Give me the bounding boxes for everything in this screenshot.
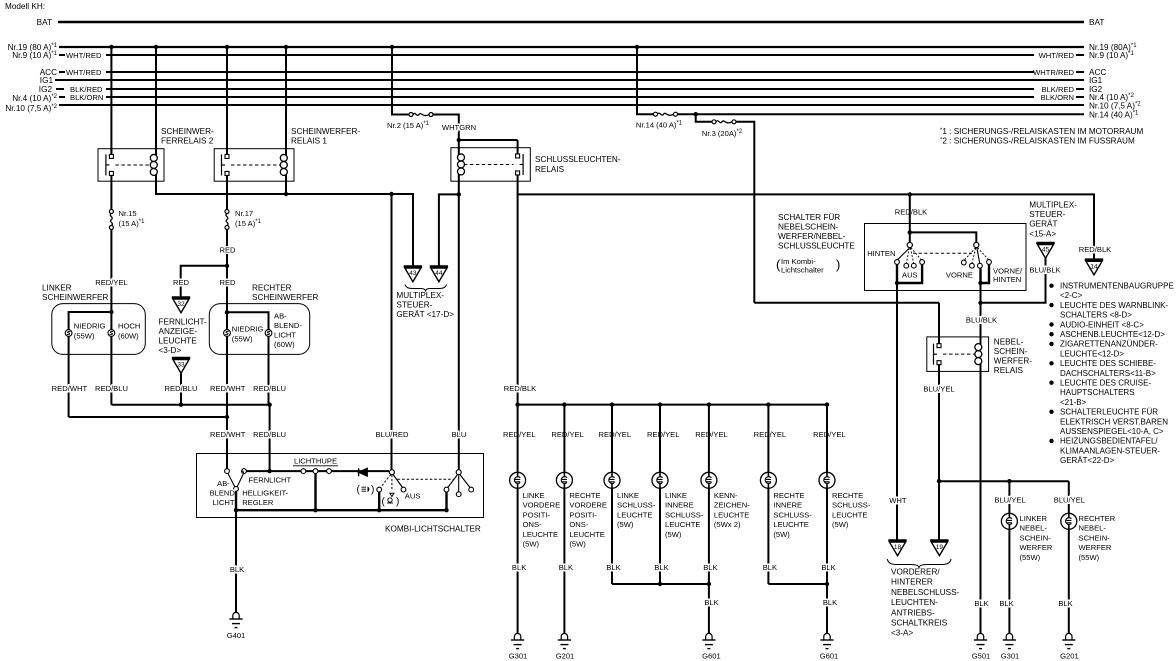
label Im Kombi-Lichtschalter	[776, 257, 840, 275]
ground G601 left	[702, 633, 721, 660]
svg-text:BLK: BLK	[606, 563, 620, 572]
svg-text:RECHTE: RECHTE	[773, 491, 804, 500]
lamp RECHTER NEBELSCHEINWERFER (55W)	[1058, 513, 1115, 634]
svg-text:SCHLUSS-: SCHLUSS-	[617, 501, 656, 510]
wire bus BAT	[37, 18, 1105, 27]
fuse Nr.3 (20A) branch	[694, 112, 755, 303]
wire BLK to G401	[230, 510, 244, 613]
bracket VORNE/HINTEN output	[978, 265, 989, 286]
svg-text:14: 14	[1090, 263, 1098, 270]
svg-text:INNERE: INNERE	[665, 501, 694, 510]
svg-text:KOMBI-LICHTSCHALTER: KOMBI-LICHTSCHALTER	[385, 525, 481, 534]
wire bus ACC WHT/RED	[40, 68, 1107, 77]
svg-text:STEUER-: STEUER-	[1029, 210, 1065, 219]
svg-text:BLK/ORN: BLK/ORN	[70, 93, 103, 102]
svg-text:RECHTER: RECHTER	[252, 284, 292, 293]
svg-text:RECHTE: RECHTE	[832, 491, 863, 500]
svg-text:STEUER-: STEUER-	[396, 301, 432, 310]
svg-text:<21-B>: <21-B>	[1060, 398, 1087, 407]
svg-text:BLU/YEL: BLU/YEL	[923, 385, 954, 394]
svg-text:VORDERE: VORDERE	[523, 501, 561, 510]
svg-text:*1 : SICHERUNGS-/RELAISKASTEN: *1 : SICHERUNGS-/RELAISKASTEN IM MOTORRA…	[940, 127, 1143, 136]
svg-text:HINTEN: HINTEN	[867, 249, 895, 258]
svg-text:WERFER: WERFER	[1020, 543, 1053, 552]
svg-text:G201: G201	[556, 652, 575, 661]
svg-text:HINTEN: HINTEN	[993, 275, 1021, 284]
svg-text:WHT: WHT	[889, 496, 907, 505]
svg-text:WHTGRN: WHTGRN	[442, 123, 476, 132]
svg-text:FERRELAIS 2: FERRELAIS 2	[161, 137, 214, 146]
svg-text:Nr.4 (10 A)*2: Nr.4 (10 A)*2	[12, 94, 57, 103]
svg-text:RELAIS: RELAIS	[994, 366, 1024, 375]
svg-text:ZEICHEN-: ZEICHEN-	[714, 501, 750, 510]
svg-text:(55W): (55W)	[1079, 553, 1100, 562]
wire bus Nr.10 (7,5A)	[5, 102, 1141, 114]
wire relay coil to ground BLK	[974, 371, 988, 634]
svg-text:BLK: BLK	[230, 565, 244, 574]
svg-text:Nr.14 (40 A)*1: Nr.14 (40 A)*1	[636, 121, 683, 130]
svg-text:LEUCHTE DES WARNBLINK-: LEUCHTE DES WARNBLINK-	[1060, 301, 1169, 310]
lamp LINKER NEBELSCHEINWERFER (55W)	[999, 513, 1053, 634]
svg-text:SCHLUSSLEUCHTEN-: SCHLUSSLEUCHTEN-	[535, 155, 621, 164]
wire drop to relay1 coil	[285, 47, 287, 152]
svg-text:Lichtschalter: Lichtschalter	[781, 266, 824, 275]
svg-text:44: 44	[435, 270, 443, 277]
svg-text:LEUCHTE: LEUCHTE	[832, 510, 867, 519]
fuse Nr.14 (40A) bus branch	[635, 45, 1139, 130]
switch rotary pivot 2	[398, 470, 474, 497]
svg-text:HAUPTSCHALTERS: HAUPTSCHALTERS	[1060, 388, 1135, 397]
svg-text:18: 18	[894, 544, 902, 551]
svg-text:LEUCHTE DES CRUISE-: LEUCHTE DES CRUISE-	[1060, 379, 1151, 388]
svg-text:RED/BLK: RED/BLK	[504, 384, 537, 393]
svg-text:INNERE: INNERE	[773, 501, 802, 510]
svg-text:AB-: AB-	[217, 479, 230, 488]
svg-text:REGLER: REGLER	[242, 498, 274, 507]
wire net schluss contact to fog switch and triangle 14 (RED/BLK)	[518, 181, 1094, 260]
connector triangle 45 with BLU/BLK tail	[981, 243, 1061, 303]
svg-text:NEBELSCHLUSS-: NEBELSCHLUSS-	[891, 588, 960, 597]
lamp RECHTE VORDERE POSITIONSLEUCHTE (5W)	[551, 405, 607, 634]
svg-text:BLU/YEL: BLU/YEL	[994, 496, 1025, 505]
svg-text:LEUCHTE: LEUCHTE	[523, 530, 558, 539]
svg-text:G301: G301	[1001, 652, 1020, 661]
svg-text:SCHEINWER-: SCHEINWER-	[161, 127, 214, 136]
ground G301 (position lamp)	[509, 633, 528, 660]
svg-text:FERNLICHT: FERNLICHT	[249, 476, 292, 485]
list of multiplex consumers	[1049, 282, 1173, 466]
svg-text:BLK/ORN: BLK/ORN	[1041, 93, 1074, 102]
svg-text:RED/BLU: RED/BLU	[95, 384, 128, 393]
svg-text:RED/YEL: RED/YEL	[599, 430, 632, 439]
svg-text:BLK: BLK	[654, 563, 668, 572]
svg-text:BLU/RED: BLU/RED	[376, 430, 409, 439]
svg-text:(55W): (55W)	[1020, 553, 1041, 562]
svg-text:RELAIS: RELAIS	[535, 165, 565, 174]
svg-text:BAT: BAT	[1089, 18, 1104, 27]
svg-text:INSTRUMENTENBAUGRUPPE: INSTRUMENTENBAUGRUPPE	[1060, 282, 1174, 291]
wire bus Nr.9 (10A) WHT/RED	[12, 51, 1134, 60]
svg-text:SCHEINWERFER-: SCHEINWERFER-	[291, 127, 360, 136]
svg-text:32: 32	[177, 301, 185, 308]
svg-text:BLEND-: BLEND-	[210, 489, 238, 498]
wire merge schlussleuchten right group BLK	[768, 582, 837, 634]
connector triangle 18	[888, 539, 906, 542]
svg-text:RED/BLK: RED/BLK	[1079, 245, 1112, 254]
svg-text:(15 A)*1: (15 A)*1	[235, 219, 262, 228]
svg-text:): )	[371, 485, 374, 496]
svg-text:LEUCHTE<12-D>: LEUCHTE<12-D>	[1060, 349, 1124, 358]
svg-text:Nr.14 (40 A)*1: Nr.14 (40 A)*1	[1089, 111, 1139, 120]
svg-text:BLK: BLK	[704, 598, 718, 607]
ground G201 (position lamp)	[556, 633, 575, 660]
svg-text:Nr.9 (10 A)*1: Nr.9 (10 A)*1	[12, 51, 57, 60]
connector triangle 32	[172, 296, 190, 299]
svg-text:HELLIGKEIT-: HELLIGKEIT-	[242, 489, 288, 498]
svg-text:AUS: AUS	[405, 492, 421, 501]
svg-text:(55W): (55W)	[74, 332, 95, 341]
svg-text:ZIGARETTENANZÜNDER-: ZIGARETTENANZÜNDER-	[1060, 340, 1158, 349]
svg-text:(5W): (5W)	[832, 520, 849, 529]
svg-text:BLK: BLK	[512, 563, 526, 572]
connector triangle 14	[1085, 258, 1103, 261]
wire bus IG1	[40, 76, 1103, 85]
svg-text:(55W): (55W)	[232, 335, 253, 344]
relay SCHEINWERFER-RELAIS 1	[214, 127, 360, 181]
switch LICHTHUPE contacts	[247, 457, 390, 474]
svg-text:SCHLUSS-: SCHLUSS-	[832, 501, 871, 510]
svg-text:43: 43	[409, 270, 417, 277]
wire kombi internal bus to ground	[234, 474, 449, 513]
connector triangle 44	[430, 265, 448, 268]
svg-text:BLU/BLK: BLU/BLK	[966, 316, 997, 325]
svg-text:<3-A>: <3-A>	[891, 629, 914, 638]
wire fog lamp distribution BLU/YEL	[937, 479, 1085, 541]
ground G301 fog	[1001, 633, 1020, 660]
svg-text:GERÄT<22-D>: GERÄT<22-D>	[1060, 456, 1115, 465]
wire Nr.3 feed to fog relay contact	[754, 303, 939, 342]
svg-text:WERFER-: WERFER-	[994, 357, 1032, 366]
lamp RECHTE INNERE SCHLUSSLEUCHTE (5W)	[754, 405, 813, 584]
svg-text:KLIMAANLAGEN-STEUER-: KLIMAANLAGEN-STEUER-	[1060, 446, 1160, 455]
svg-text:GERÄT <17-D>: GERÄT <17-D>	[396, 309, 454, 319]
svg-text:SCHLUSSLEUCHTE: SCHLUSSLEUCHTE	[778, 242, 855, 251]
brace under triangles 18/19	[887, 559, 951, 568]
svg-text:SCHLUSS-: SCHLUSS-	[773, 510, 812, 519]
icon headlight in parens	[357, 485, 375, 496]
svg-text:(5Wx 2): (5Wx 2)	[714, 520, 741, 529]
svg-text:RED/BLU: RED/BLU	[253, 430, 286, 439]
svg-text:RED/BLK: RED/BLK	[895, 208, 928, 217]
svg-text:33: 33	[177, 362, 185, 369]
svg-text:*2 : SICHERUNGS-/RELAISKASTEN: *2 : SICHERUNGS-/RELAISKASTEN IM FUSSRAU…	[940, 137, 1135, 146]
svg-text:LEUCHTE: LEUCHTE	[773, 520, 808, 529]
svg-text:BLK: BLK	[763, 563, 777, 572]
svg-text:BLK: BLK	[821, 563, 835, 572]
wire bus Nr.19 (80A)	[8, 43, 1138, 52]
svg-text:RED: RED	[219, 278, 236, 287]
lamp RECHTE SCHLUSSLEUCHTE (5W)	[813, 405, 871, 584]
svg-text:BLK: BLK	[1058, 599, 1072, 608]
svg-text:(5W): (5W)	[523, 540, 540, 549]
svg-text:RED/YEL: RED/YEL	[695, 430, 728, 439]
svg-text:Nr.10 (7,5 A)*2: Nr.10 (7,5 A)*2	[5, 104, 57, 113]
wire fog switch feed split	[908, 194, 977, 242]
svg-text:GERÄT: GERÄT	[1029, 219, 1057, 229]
svg-text:BLK: BLK	[999, 599, 1013, 608]
wire drop to relay1 contact	[226, 47, 228, 152]
lamp KENNZEICHENLEUCHTE (5W)	[695, 405, 750, 584]
ground G501	[972, 633, 991, 660]
svg-text:IG1: IG1	[40, 76, 54, 85]
lamp LINKE VORDERE POSITIONSLEUCHTE (5W)	[503, 405, 560, 634]
wire merge RED/WHT	[69, 415, 230, 419]
svg-text:(60W): (60W)	[118, 332, 139, 341]
fuse Nr.15 (15A)	[109, 181, 145, 305]
svg-text:ONS-: ONS-	[523, 520, 542, 529]
svg-text:RED/WHT: RED/WHT	[210, 430, 246, 439]
svg-text:19: 19	[936, 544, 944, 551]
svg-text:RED: RED	[173, 278, 190, 287]
svg-text:45: 45	[1042, 247, 1050, 254]
diode arrow on fernlicht wire	[359, 468, 368, 476]
svg-text:Nr.17: Nr.17	[235, 209, 253, 218]
svg-text:LEUCHTE: LEUCHTE	[665, 520, 700, 529]
svg-text:MULTIPLEX-: MULTIPLEX-	[396, 291, 444, 300]
svg-text:AUSSENSPIEGEL<10-A, C>: AUSSENSPIEGEL<10-A, C>	[1060, 427, 1164, 436]
svg-text:(5W): (5W)	[617, 520, 634, 529]
svg-text:RED/BLU: RED/BLU	[165, 384, 198, 393]
svg-text:SCHEIN-: SCHEIN-	[994, 347, 1028, 356]
wire drop to relay2 contact	[110, 47, 112, 152]
svg-text:SCHLUSS-: SCHLUSS-	[665, 510, 704, 519]
svg-text:Nr.3 (20A)*2: Nr.3 (20A)*2	[702, 129, 743, 138]
svg-text:WHT/RED: WHT/RED	[1039, 51, 1075, 60]
svg-text:(60W): (60W)	[274, 340, 295, 349]
wire merge schlussleuchten left group BLK	[612, 582, 719, 634]
svg-text:RED/YEL: RED/YEL	[503, 430, 536, 439]
svg-text:LINKE: LINKE	[665, 491, 687, 500]
brace + label MULTIPLEX-STEUER-GERAET 17-D	[396, 285, 454, 320]
svg-text:MULTIPLEX-: MULTIPLEX-	[1029, 201, 1077, 210]
svg-text:RED/WHT: RED/WHT	[52, 384, 88, 393]
svg-text:): )	[836, 257, 840, 272]
svg-text:SCHEINWERFER: SCHEINWERFER	[42, 293, 108, 302]
svg-text:G601: G601	[702, 652, 721, 661]
svg-text:VORDERE: VORDERE	[569, 501, 607, 510]
svg-text:WHTR/RED: WHTR/RED	[1033, 68, 1074, 77]
ground G401	[227, 612, 246, 640]
svg-text:RED/BLU: RED/BLU	[253, 384, 286, 393]
connector triangle 33 with RED/BLU tail	[172, 358, 190, 405]
svg-text:LICHTHUPE: LICHTHUPE	[294, 457, 337, 466]
svg-text:NEBELSCHEIN-: NEBELSCHEIN-	[778, 223, 839, 232]
svg-text:ANZEIGE-: ANZEIGE-	[159, 327, 198, 336]
svg-text:FERNLICHT-: FERNLICHT-	[159, 318, 207, 327]
relay SCHLUSSLEUCHTEN-RELAIS	[451, 138, 621, 181]
svg-text:): )	[396, 497, 399, 508]
svg-text:WERFER: WERFER	[1079, 543, 1112, 552]
svg-text:LEUCHTE DES SCHIEBE-: LEUCHTE DES SCHIEBE-	[1060, 359, 1156, 368]
wire WHT from AUS to triangle 18	[889, 283, 907, 541]
svg-text:RED/YEL: RED/YEL	[551, 430, 584, 439]
svg-text:G501: G501	[972, 652, 991, 661]
svg-text:HOCH: HOCH	[118, 322, 140, 331]
svg-text:Nr.2 (15 A)*1: Nr.2 (15 A)*1	[387, 121, 430, 130]
svg-text:KENN-: KENN-	[714, 491, 738, 500]
relay SCHEINWERFERRELAIS 2	[98, 127, 214, 181]
svg-text:LICHT: LICHT	[213, 498, 235, 507]
svg-text:NEBEL-: NEBEL-	[1079, 524, 1107, 533]
wire BLU/YEL from relay contact	[923, 371, 954, 481]
svg-text:Modell KH:: Modell KH:	[5, 2, 45, 11]
svg-text:NIEDRIG: NIEDRIG	[232, 325, 264, 334]
switch rotary fog front	[961, 242, 991, 268]
wire taillight distribution bus RED/BLK	[515, 402, 829, 406]
wire merge RED/BLU	[111, 403, 271, 472]
switch rotary pivot 1 with AUS	[377, 470, 406, 497]
svg-text:BLK: BLK	[974, 599, 988, 608]
switch rotary fog rear (AUS position)	[895, 242, 925, 268]
svg-text:LINKE: LINKE	[617, 491, 639, 500]
svg-text:SCHALTERS <8-D>: SCHALTERS <8-D>	[1060, 311, 1132, 320]
switch box KOMBI-LICHTSCHALTER	[197, 454, 484, 518]
wire RED branch to triangle 32	[173, 246, 236, 298]
svg-text:BLU: BLU	[452, 430, 467, 439]
headlamp LINKER SCHEINWERFER	[42, 284, 145, 418]
svg-text:POSITI-: POSITI-	[569, 510, 597, 519]
svg-text:LINKER: LINKER	[42, 284, 72, 293]
svg-text:BAT: BAT	[37, 18, 52, 27]
svg-text:LEUCHTEN-: LEUCHTEN-	[891, 598, 938, 607]
fuse Nr.2 (15A) branch with wire WHT/GRN	[387, 45, 476, 140]
svg-text:HEIZUNGSBEDIENTAFEL/: HEIZUNGSBEDIENTAFEL/	[1060, 437, 1158, 446]
svg-text:(5W): (5W)	[569, 540, 586, 549]
svg-text:LEUCHTE: LEUCHTE	[569, 530, 604, 539]
svg-text:RED/YEL: RED/YEL	[813, 430, 846, 439]
wire RED/BLK drop to taillight bus	[504, 194, 537, 404]
svg-text:(5W): (5W)	[665, 530, 682, 539]
svg-text:(5W): (5W)	[773, 530, 790, 539]
svg-text:ELEKTRISCH VERST.BAREN: ELEKTRISCH VERST.BAREN	[1060, 417, 1168, 426]
wire drop to relay2 coil	[155, 47, 157, 152]
dashed link between fog rotaries	[913, 252, 972, 254]
svg-text:SCHEIN-: SCHEIN-	[1020, 533, 1052, 542]
svg-text:DACHSCHALTERS<11-B>: DACHSCHALTERS<11-B>	[1060, 369, 1156, 378]
svg-text:(: (	[357, 485, 361, 496]
svg-text:AUDIO-EINHEIT <8-C>: AUDIO-EINHEIT <8-C>	[1060, 320, 1144, 329]
wire bus IG2 BLK/RED	[39, 85, 1103, 94]
svg-text:VORNE: VORNE	[946, 271, 973, 280]
svg-text:(15 A)*1: (15 A)*1	[119, 219, 146, 228]
svg-text:G601: G601	[820, 652, 839, 661]
fuse Nr.17 (15A)	[225, 181, 262, 305]
switch box SCHALTER FUER NEBELSCHEINWERFER/NEBELSCHLUSSLEUCHTE	[865, 224, 1027, 291]
svg-text:RECHTE: RECHTE	[569, 491, 600, 500]
svg-text:RED: RED	[219, 246, 236, 255]
svg-text:WERFER/NEBEL-: WERFER/NEBEL-	[778, 232, 846, 241]
svg-text:BLK: BLK	[703, 563, 717, 572]
wire BLU/BLK from switch to relay coil	[966, 283, 997, 340]
svg-text:LINKE: LINKE	[523, 491, 545, 500]
svg-text:IG2: IG2	[39, 85, 53, 94]
connector triangle 19	[930, 539, 948, 542]
svg-text:RED/WHT: RED/WHT	[210, 384, 246, 393]
svg-text:BLEND-: BLEND-	[274, 321, 302, 330]
ground G601 right	[820, 633, 839, 660]
wire bus Nr.4 (10A) BLK/ORN	[12, 93, 1134, 103]
svg-text:LEUCHTE: LEUCHTE	[714, 510, 749, 519]
svg-text:G401: G401	[227, 631, 246, 640]
svg-text:<15-A>: <15-A>	[1029, 229, 1056, 238]
svg-text:WHT/RED: WHT/RED	[66, 51, 102, 60]
svg-text:SCHEINWERFER: SCHEINWERFER	[252, 293, 318, 302]
svg-text:AB-: AB-	[274, 312, 287, 321]
svg-text:BLU/YEL: BLU/YEL	[1054, 496, 1085, 505]
lamp LINKE SCHLUSSLEUCHTE (5W)	[599, 405, 656, 584]
svg-text:BLK: BLK	[823, 598, 837, 607]
svg-text:BLU/BLK: BLU/BLK	[1029, 266, 1060, 275]
wire net relay coils to multiplex 43 (RED)	[156, 181, 413, 266]
svg-text:NEBEL-: NEBEL-	[994, 338, 1024, 347]
svg-text:SCHEIN-: SCHEIN-	[1079, 533, 1111, 542]
switch AB-BLEND-LICHT / FERNLICHT	[225, 468, 247, 491]
svg-text:RELAIS 1: RELAIS 1	[291, 137, 327, 146]
svg-text:RED/YEL: RED/YEL	[95, 278, 128, 287]
svg-text:<2-C>: <2-C>	[1060, 291, 1083, 300]
svg-text:NIEDRIG: NIEDRIG	[74, 322, 106, 331]
wire net schluss coil to multiplex 44 + BLU drop	[439, 181, 466, 469]
svg-text:SCHALTERLEUCHTE FÜR: SCHALTERLEUCHTE FÜR	[1060, 408, 1158, 417]
svg-text:RED/YEL: RED/YEL	[754, 430, 787, 439]
svg-text:G201: G201	[1060, 652, 1079, 661]
svg-text:SCHALTER FÜR: SCHALTER FÜR	[778, 212, 840, 222]
svg-text:POSITI-: POSITI-	[523, 510, 551, 519]
svg-text:Nr.15: Nr.15	[119, 209, 137, 218]
svg-text:Nr.9 (10 A)*1: Nr.9 (10 A)*1	[1089, 51, 1134, 60]
svg-text:ASCHENB.LEUCHTE<12-D>: ASCHENB.LEUCHTE<12-D>	[1060, 330, 1165, 339]
svg-text:<3-D>: <3-D>	[159, 346, 182, 355]
svg-text:Nr.10 (7,5 A)*2: Nr.10 (7,5 A)*2	[1089, 102, 1141, 111]
svg-text:LEUCHTE: LEUCHTE	[617, 510, 652, 519]
bracket AUS output	[895, 265, 922, 286]
svg-text:(: (	[382, 497, 386, 508]
connector triangle 43	[404, 265, 422, 268]
svg-text:SCHALTKREIS: SCHALTKREIS	[891, 619, 948, 628]
wire BLU/RED drop to kombi switch	[376, 194, 409, 469]
svg-text:ONS-: ONS-	[569, 520, 588, 529]
svg-text:NEBEL-: NEBEL-	[1020, 524, 1048, 533]
relay NEBELSCHEINWERFER-RELAIS	[927, 337, 1032, 375]
svg-text:WHT/RED: WHT/RED	[66, 68, 102, 77]
svg-text:VORDERER/: VORDERER/	[891, 568, 940, 577]
svg-text:RECHTER: RECHTER	[1079, 514, 1116, 523]
headlamp RECHTER SCHEINWERFER	[209, 284, 318, 469]
svg-text:HINTERER: HINTERER	[891, 578, 933, 587]
svg-text:LEUCHTE: LEUCHTE	[159, 337, 198, 346]
svg-text:AUS: AUS	[902, 271, 918, 280]
svg-text:RED/YEL: RED/YEL	[647, 430, 680, 439]
svg-text:G301: G301	[509, 652, 528, 661]
svg-text:ANTRIEBS-: ANTRIEBS-	[891, 608, 935, 617]
lamp LINKE INNERE SCHLUSSLEUCHTE (5W)	[647, 405, 704, 584]
icon position light in parens	[382, 497, 400, 508]
ground G201 fog	[1060, 633, 1079, 660]
svg-text:LICHT: LICHT	[274, 331, 296, 340]
svg-text:LINKER: LINKER	[1020, 514, 1048, 523]
svg-text:BLK: BLK	[559, 563, 573, 572]
svg-text:IG1: IG1	[1089, 76, 1103, 85]
